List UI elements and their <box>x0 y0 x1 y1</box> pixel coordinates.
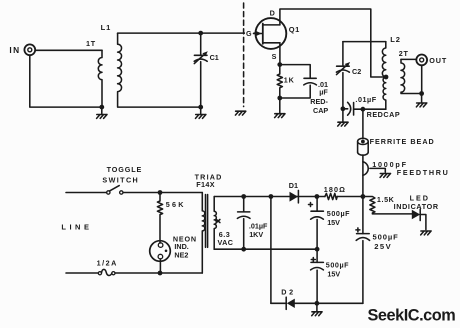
fuse 1/2A <box>97 259 118 276</box>
capacitor 500uF 15V no1 <box>309 197 351 250</box>
svg-text:.01µF: .01µF <box>355 95 376 104</box>
svg-text:.01µF: .01µF <box>249 221 268 230</box>
svg-text:1KV: 1KV <box>249 230 263 239</box>
svg-text:F14X: F14X <box>196 180 215 189</box>
node REDCAP right <box>361 107 366 112</box>
node C2 REDCAP left <box>341 106 346 111</box>
ground LED <box>421 231 431 235</box>
capacitor .01uF 1KV <box>237 197 268 250</box>
inductor 2T output coil <box>399 49 422 93</box>
svg-text:TOGGLE: TOGGLE <box>107 165 143 174</box>
svg-text:15V: 15V <box>327 270 340 279</box>
svg-text:FEEDTHRU: FEEDTHRU <box>397 168 450 177</box>
svg-text:56K: 56K <box>166 200 186 209</box>
wire LINE bottom <box>66 272 98 274</box>
node cap 1KV top <box>241 194 246 199</box>
wire source lead <box>279 43 281 65</box>
capacitor 1000pF feedthru <box>363 160 450 177</box>
svg-text:FERRITE BEAD: FERRITE BEAD <box>370 137 435 146</box>
svg-text:500µF: 500µF <box>327 209 350 218</box>
resistor R 1K <box>277 65 294 98</box>
svg-text:180Ω: 180Ω <box>324 185 346 194</box>
svg-text:SeekIC.com: SeekIC.com <box>368 306 456 324</box>
inductor L1 primary coil <box>98 50 102 107</box>
wire secondary top rail <box>214 196 363 198</box>
node middle rail right <box>315 247 320 252</box>
wire neon to bottom line <box>159 259 161 273</box>
shield dashed line <box>243 3 245 107</box>
wire switch to transformer <box>123 192 202 194</box>
ground bottom rail <box>312 303 322 315</box>
ground under L1 <box>97 107 107 118</box>
svg-text:µF: µF <box>319 88 328 97</box>
wire D2 branch vertical <box>270 197 272 304</box>
wire tank top rail <box>343 41 386 43</box>
svg-text:OUT: OUT <box>429 56 447 65</box>
node C1 bottom <box>198 105 203 110</box>
capacitor C1 (variable) <box>194 33 219 107</box>
node 1K bottom <box>277 96 282 101</box>
transformer T1 secondary <box>214 197 216 250</box>
svg-text:LINE: LINE <box>61 223 92 232</box>
svg-text:S: S <box>272 52 277 61</box>
wire fuse to transformer <box>115 272 202 274</box>
neon lamp NE2 <box>150 234 197 261</box>
transformer T1 primary <box>202 193 205 274</box>
terminal OUT <box>416 55 447 66</box>
wire OUT shell down <box>421 65 423 93</box>
svg-text:SWITCH: SWITCH <box>102 175 139 184</box>
wire IN down to ground rail <box>30 55 102 107</box>
capacitor 500uF 15V no2 <box>311 249 350 303</box>
X mark on secondary <box>216 220 220 223</box>
LED indicator <box>394 193 439 229</box>
ground under C1 <box>196 107 206 118</box>
svg-text:1.5K: 1.5K <box>377 195 395 204</box>
ground feedthru <box>380 174 390 178</box>
capacitor .01uF RED-CAP <box>280 65 329 115</box>
node L2 tap <box>384 75 389 80</box>
wire LINE top <box>66 192 107 194</box>
svg-text:D2: D2 <box>281 287 296 296</box>
terminal IN <box>9 44 35 55</box>
inductor L1 secondary coil <box>118 33 201 107</box>
svg-text:1T: 1T <box>86 39 96 48</box>
ground under 1K <box>275 98 285 118</box>
node ground rail <box>315 301 320 306</box>
svg-text:500µF: 500µF <box>326 260 349 269</box>
svg-text:500µF: 500µF <box>373 232 399 241</box>
svg-text:IN: IN <box>9 45 20 55</box>
resistor 56K <box>157 193 185 244</box>
node B+ <box>361 194 366 199</box>
node D2 branch <box>269 194 274 199</box>
svg-text:25V: 25V <box>374 242 392 251</box>
svg-text:INDICATOR: INDICATOR <box>394 202 439 211</box>
transformer T1 core <box>206 195 208 248</box>
label G <box>245 28 254 38</box>
node OUT ground <box>419 91 424 96</box>
node cap 1KV bottom <box>241 247 246 252</box>
svg-text:REDCAP: REDCAP <box>367 110 401 119</box>
wire bead to B+ node <box>362 155 364 197</box>
ferrite bead <box>358 137 435 155</box>
svg-text:D1: D1 <box>289 181 298 190</box>
wire bead branch <box>362 109 364 138</box>
capacitor 500uF 25V <box>356 197 399 304</box>
toggle switch S1 <box>102 165 142 194</box>
ground under shield <box>235 111 245 115</box>
svg-text:2T: 2T <box>399 49 409 58</box>
svg-text:C2: C2 <box>352 67 361 76</box>
svg-text:C1: C1 <box>210 53 219 62</box>
svg-text:VAC: VAC <box>218 238 234 247</box>
node 56K top <box>158 190 163 195</box>
node neon bottom <box>158 271 163 276</box>
svg-text:15V: 15V <box>327 218 340 227</box>
svg-text:L2: L2 <box>390 35 401 44</box>
svg-text:1K: 1K <box>284 76 295 85</box>
svg-text:CAP: CAP <box>313 106 328 115</box>
ground under OUT <box>416 94 426 107</box>
node D1 cathode <box>315 194 320 199</box>
wire secondary bottom rail <box>214 248 317 250</box>
ground under C2 node <box>338 109 348 126</box>
svg-text:Q1: Q1 <box>289 25 300 34</box>
wire IN to L1 primary top <box>35 49 102 51</box>
svg-text:NE2: NE2 <box>174 251 188 260</box>
resistor 1.5K <box>363 195 412 214</box>
transistor Q1 (JFET) <box>254 9 300 61</box>
capacitor .01uF REDCAP <box>343 95 400 119</box>
node source <box>277 62 282 67</box>
node L1 primary bottom <box>99 105 104 110</box>
svg-text:IND.: IND. <box>174 242 188 251</box>
inductor L2 <box>382 35 401 109</box>
svg-text:D: D <box>270 9 275 18</box>
wire drain rail to L2 tap <box>280 9 386 77</box>
node C1 top <box>198 31 203 36</box>
svg-text:RED-: RED- <box>310 97 328 106</box>
diode D2 <box>271 287 363 309</box>
wire gate rail <box>118 32 256 34</box>
capacitor C2 (variable) <box>336 42 361 109</box>
svg-text:L1: L1 <box>101 23 112 32</box>
svg-text:1/2A: 1/2A <box>97 259 118 268</box>
svg-text:G: G <box>246 29 252 38</box>
diode D1 <box>289 181 299 203</box>
resistor 180 ohm <box>324 185 346 199</box>
